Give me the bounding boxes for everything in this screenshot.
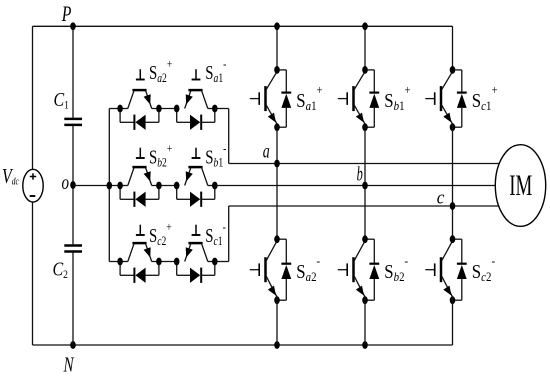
label Sa2-: [296, 253, 320, 284]
node P label: [61, 2, 72, 26]
wire: row c segment T2 right: [208, 261, 215, 263]
wire: row a node line left segment: [120, 108, 128, 110]
junction dot top rail / capacitor branch: [70, 22, 76, 30]
junction dot phase b on leg b: [362, 182, 368, 190]
junction dot top rail / leg a: [274, 22, 280, 30]
wire: bus stub to row a left node: [109, 108, 120, 110]
label Sa2: [149, 58, 172, 86]
gate symbol of Sa2: [136, 69, 145, 79]
junction dot bottom rail / leg b: [362, 341, 368, 349]
wire: leg b from P rail to upper IGBT: [364, 26, 366, 72]
wire: clamp-cell left bus vertical: [108, 109, 110, 262]
svg-text:b: b: [357, 162, 363, 185]
junction dot bottom of Sc1+: [450, 123, 456, 131]
transistor Sa2 (clamp IGBT): [128, 90, 152, 108]
IGBT Sa1+: [250, 72, 277, 124]
transistor Sb1 (clamp IGBT): [185, 167, 208, 185]
label C1: [54, 88, 69, 111]
wire: bus stub to row c left node: [109, 261, 120, 263]
wire: row b node line left segment: [120, 185, 128, 187]
wire: leg c from lower IGBT to N rail: [452, 297, 454, 346]
induction motor IM: [495, 145, 545, 227]
wire: row c segment T1 to mid: [152, 261, 177, 263]
wire: leg c from P rail to upper IGBT: [452, 26, 454, 72]
junction dot phase a on leg a: [274, 160, 280, 168]
wire: bottom DC rail N: [33, 344, 453, 346]
IGBT Sc2-: [425, 241, 452, 297]
wire: left vertical from P rail to Vdc source: [32, 26, 34, 169]
junction dot row b T2 left node: [174, 182, 180, 190]
diode of Sb2 (antiparallel, pointing left): [120, 186, 159, 207]
node o dot: [70, 181, 76, 189]
junction dot top rail / leg b: [362, 22, 368, 30]
IGBT Sc1+: [425, 72, 452, 124]
junction dot top of Sa1+: [274, 66, 280, 74]
transistor Sc2 (clamp IGBT): [128, 243, 152, 261]
label Sb2: [149, 142, 172, 170]
junction dot top of Sb2-: [362, 235, 368, 243]
junction dot row a left node: [117, 105, 123, 113]
IGBT Sb2-: [338, 241, 365, 297]
junction dot row a T2 left node: [174, 105, 180, 113]
junction dot top of Sc2-: [450, 235, 456, 243]
wire: capacitor branch from P to C1: [72, 26, 74, 118]
label Sc1: [205, 221, 226, 249]
wire: leg a midsection through phase node: [276, 124, 278, 242]
wire: leg a from P rail to upper IGBT: [276, 26, 278, 72]
label Sa1: [205, 58, 226, 86]
junction dot row b left node: [117, 182, 123, 190]
transistor Sa1 (clamp IGBT): [185, 90, 208, 108]
capacitor C2: [64, 246, 82, 252]
label Vdc: [2, 165, 19, 189]
svg-text:N: N: [63, 353, 75, 376]
IGBT Sa2-: [250, 241, 277, 297]
wire: row b segment T1 to mid: [152, 185, 177, 187]
node c label: [437, 187, 445, 208]
wire: leg c midsection through phase node: [452, 124, 454, 242]
wire: row c node line left segment: [120, 261, 128, 263]
wire: phase c line to motor: [229, 205, 500, 207]
junction dot top of Sa2-: [274, 235, 280, 243]
junction dot bottom rail / capacitor branch: [70, 341, 76, 349]
freewheel diode of Sb2-: [365, 239, 379, 300]
junction dot row b right node: [212, 182, 218, 190]
junction dot phase c on leg c: [450, 202, 456, 210]
wire: row a segment T2 right: [208, 108, 215, 110]
wire: between C1 and C2 through node o: [72, 126, 74, 244]
node a label: [263, 140, 270, 162]
svg-text:P: P: [61, 2, 72, 26]
junction dot row c right node: [212, 258, 218, 266]
capacitor C1: [64, 119, 82, 125]
svg-text:a: a: [263, 140, 270, 162]
junction dot bottom of Sa2-: [274, 296, 280, 304]
gate symbol of Sb2: [136, 148, 145, 158]
wire: row b segment T2 right: [208, 185, 215, 187]
junction dot bottom of Sa1+: [274, 123, 280, 131]
junction dot row c left node: [117, 258, 123, 266]
wire: leg a from lower IGBT to N rail: [276, 297, 278, 346]
label Sc2: [149, 221, 172, 249]
freewheel diode of Sb1+: [365, 70, 379, 127]
label Sa1+: [296, 82, 323, 113]
label C2: [53, 258, 68, 281]
junction dot top of Sc1+: [450, 66, 456, 74]
freewheel diode of Sa2-: [277, 239, 291, 300]
diode of Sc2 (antiparallel, pointing left): [120, 262, 159, 283]
junction dot row a right node: [212, 105, 218, 113]
junction dot row b T1 right node: [156, 182, 162, 190]
wire: top DC rail P: [33, 25, 453, 27]
gate symbol of Sc1: [192, 225, 201, 235]
gate symbol of Sb1: [192, 148, 201, 158]
label Sc2-: [472, 253, 495, 284]
freewheel diode of Sa1+: [277, 70, 291, 127]
wire: row a right node elbow down to phase a line: [215, 109, 229, 164]
diode of Sa1 (antiparallel, pointing right): [177, 109, 215, 130]
junction dot row c T1 right node: [156, 258, 162, 266]
freewheel diode of Sc2-: [453, 239, 467, 300]
junction dot bottom of Sc2-: [450, 296, 456, 304]
wire: capacitor branch from C2 to N: [72, 253, 74, 345]
svg-text:IM: IM: [509, 170, 532, 202]
label Sc1+: [472, 82, 498, 113]
wire: leg b from lower IGBT to N rail: [364, 297, 366, 346]
label Sb1: [205, 142, 226, 170]
node o label: [62, 171, 70, 194]
freewheel diode of Sc1+: [453, 70, 467, 127]
junction dot bottom of Sb2-: [362, 296, 368, 304]
junction dot bottom rail / leg a: [274, 341, 280, 349]
node N label: [63, 353, 75, 376]
wire: row c right node elbow up to phase c line: [215, 206, 229, 262]
gate symbol of Sc2: [136, 225, 145, 235]
diode of Sb1 (antiparallel, pointing right): [177, 186, 215, 207]
gate symbol of Sa1: [192, 69, 201, 79]
label Sb1+: [384, 82, 411, 113]
wire: phase b line to motor: [215, 185, 496, 187]
label Sb2-: [384, 253, 408, 284]
node b label: [357, 162, 363, 185]
wire: node o to clamp bus: [73, 185, 120, 187]
wire: left vertical from Vdc source to N rail: [32, 202, 34, 345]
IGBT Sb1+: [338, 72, 365, 124]
junction dot row c T2 left node: [174, 258, 180, 266]
junction dot bottom of Sb1+: [362, 123, 368, 131]
diode of Sa2 (antiparallel, pointing left): [120, 109, 159, 130]
svg-text:c: c: [437, 187, 445, 208]
svg-text:o: o: [62, 171, 70, 194]
transistor Sb2 (clamp IGBT): [128, 167, 152, 185]
junction dot top of Sb1+: [362, 66, 368, 74]
transistor Sc1 (clamp IGBT): [185, 243, 208, 261]
wire: leg b midsection through phase node: [364, 124, 366, 242]
diode of Sc1 (antiparallel, pointing right): [177, 262, 215, 283]
wire: row a segment T1 to mid: [152, 108, 177, 110]
wire: phase a line to motor: [229, 163, 500, 165]
junction dot row a T1 right node: [156, 105, 162, 113]
junction dot bus / node o line: [107, 182, 113, 190]
voltage source Vdc: [23, 169, 43, 202]
